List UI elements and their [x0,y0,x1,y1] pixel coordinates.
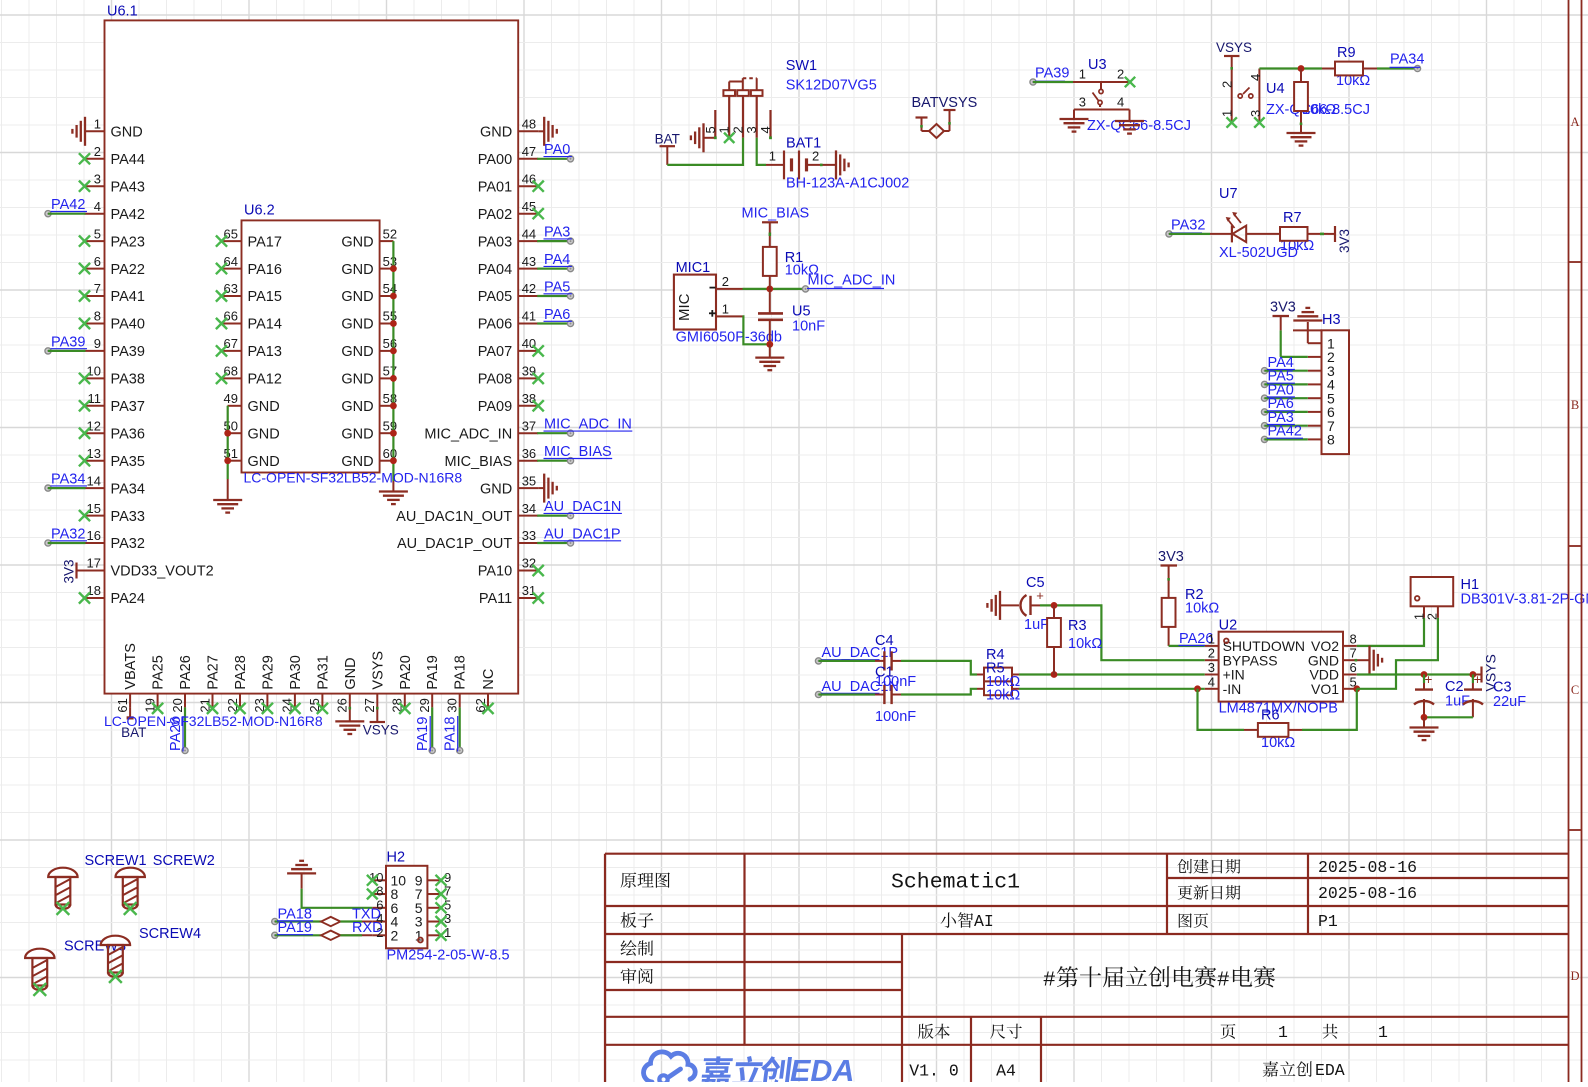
svg-text:PA33: PA33 [111,509,145,525]
svg-text:1: 1 [1220,110,1235,117]
svg-text:10kΩ: 10kΩ [785,263,819,279]
svg-text:15: 15 [87,501,101,516]
svg-text:31: 31 [522,583,536,598]
svg-text:4: 4 [1248,74,1263,81]
svg-text:#: # [1043,970,1056,993]
svg-text:MIC_BIAS: MIC_BIAS [742,205,810,221]
svg-text:2: 2 [812,149,819,164]
svg-text:LC-OPEN-SF32LB52-MOD-N16R8: LC-OPEN-SF32LB52-MOD-N16R8 [244,470,463,486]
svg-text:MIC_ADC_IN: MIC_ADC_IN [544,417,632,433]
svg-text:67: 67 [224,336,238,351]
svg-text:EDA: EDA [1315,1061,1345,1080]
svg-text:65: 65 [224,226,238,241]
svg-text:43: 43 [522,254,536,269]
svg-text:BH-123A-A1CJ002: BH-123A-A1CJ002 [786,176,909,192]
svg-text:VSYS: VSYS [370,651,386,690]
svg-text:PA41: PA41 [111,289,145,305]
svg-text:PA19: PA19 [425,655,441,689]
svg-text:PA27: PA27 [206,655,222,689]
svg-text:SW1: SW1 [786,58,817,74]
svg-text:48: 48 [522,117,536,132]
svg-text:6: 6 [94,254,101,269]
svg-text:5: 5 [94,226,101,241]
svg-text:GND: GND [341,289,373,305]
svg-text:41: 41 [522,309,536,324]
svg-text:MIC_BIAS: MIC_BIAS [445,454,513,470]
svg-text:AU_DAC1N: AU_DAC1N [544,499,621,515]
svg-text:2025-08-16: 2025-08-16 [1318,884,1417,903]
svg-text:PA17: PA17 [248,234,282,250]
svg-text:5: 5 [703,126,718,133]
svg-text:PA19: PA19 [415,717,431,751]
svg-text:38: 38 [522,391,536,406]
svg-text:35: 35 [522,473,536,488]
svg-text:1: 1 [1413,613,1427,620]
svg-text:8: 8 [1327,432,1335,448]
svg-text:PA32: PA32 [111,536,145,552]
svg-text:U3: U3 [1088,57,1107,73]
svg-text:PA28: PA28 [233,655,249,689]
svg-text:1: 1 [94,117,101,132]
svg-text:VBATS: VBATS [123,643,139,689]
svg-text:GND: GND [248,426,280,442]
svg-text:3V3: 3V3 [1337,229,1352,253]
svg-text:SCREW2: SCREW2 [153,853,215,869]
svg-text:3V3: 3V3 [1270,300,1296,316]
svg-text:PA26: PA26 [178,655,194,689]
svg-text:10kΩ: 10kΩ [1185,601,1219,617]
svg-text:4: 4 [1208,674,1215,689]
svg-text:12: 12 [87,418,101,433]
svg-text:PA3: PA3 [544,225,570,241]
svg-text:2025-08-16: 2025-08-16 [1318,858,1417,877]
svg-text:32: 32 [522,556,536,571]
svg-text:BAT: BAT [655,132,680,147]
svg-text:#: # [1217,970,1230,993]
svg-text:PA6: PA6 [544,307,570,323]
svg-text:2: 2 [1208,646,1215,661]
svg-text:1: 1 [1378,1023,1388,1042]
svg-text:PA02: PA02 [478,207,512,223]
svg-text:PA29: PA29 [260,655,276,689]
svg-text:AU_DAC1P: AU_DAC1P [544,526,621,542]
svg-text:PA19: PA19 [278,920,312,936]
svg-text:C4: C4 [875,633,894,649]
svg-text:18: 18 [87,583,101,598]
svg-text:U5: U5 [792,304,811,320]
svg-text:PA34: PA34 [51,472,85,488]
svg-text:VSYS: VSYS [1216,40,1252,55]
svg-text:PA43: PA43 [111,179,145,195]
svg-text:PA40: PA40 [111,317,145,333]
svg-text:9: 9 [94,336,101,351]
svg-text:6: 6 [1350,660,1357,675]
svg-text:1: 1 [722,301,729,316]
svg-text:EDA: EDA [790,1054,854,1082]
svg-text:36: 36 [522,446,536,461]
svg-text:GND: GND [480,125,512,141]
svg-text:PA5: PA5 [544,279,570,295]
svg-text:SK12D07VG5: SK12D07VG5 [786,78,877,94]
svg-text:GND: GND [341,344,373,360]
svg-text:39: 39 [522,364,536,379]
svg-text:100nF: 100nF [875,709,916,725]
svg-text:PA10: PA10 [478,564,512,580]
svg-text:22uF: 22uF [1493,694,1526,710]
svg-text:8: 8 [94,309,101,324]
svg-text:PA39: PA39 [111,344,145,360]
svg-text:PA03: PA03 [478,234,512,250]
svg-text:U4: U4 [1266,81,1285,97]
svg-text:7: 7 [1350,646,1357,661]
svg-text:66: 66 [224,309,238,324]
svg-text:45: 45 [522,199,536,214]
svg-text:+: + [1036,588,1044,603]
svg-text:+: + [1425,672,1433,687]
svg-text:SCREW1: SCREW1 [85,853,147,869]
svg-text:D: D [1570,969,1579,983]
svg-text:GND: GND [341,399,373,415]
svg-text:2: 2 [391,927,399,943]
svg-text:2: 2 [1426,613,1440,620]
svg-text:PA24: PA24 [111,591,145,607]
svg-text:H3: H3 [1322,312,1341,328]
svg-text:PA39: PA39 [1035,66,1069,82]
svg-text:47: 47 [522,144,536,159]
svg-text:PA37: PA37 [111,399,145,415]
svg-text:PA14: PA14 [248,317,282,333]
svg-text:VSYS: VSYS [363,722,399,737]
svg-text:27: 27 [362,698,377,712]
svg-text:33: 33 [522,528,536,543]
svg-text:P1: P1 [1318,912,1338,931]
svg-text:PA01: PA01 [478,179,512,195]
svg-text:MIC: MIC [676,293,693,321]
svg-text:GND: GND [341,426,373,442]
svg-text:U2: U2 [1219,618,1238,634]
svg-text:PA06: PA06 [478,317,512,333]
svg-text:29: 29 [417,698,432,712]
svg-text:PA20: PA20 [398,655,414,689]
svg-text:3: 3 [1079,95,1086,110]
svg-text:PA42: PA42 [111,207,145,223]
svg-text:3: 3 [744,126,759,133]
svg-text:10: 10 [87,364,101,379]
svg-text:13: 13 [87,446,101,461]
svg-text:PA00: PA00 [478,152,512,168]
svg-text:PA4: PA4 [544,252,570,268]
svg-text:VO1: VO1 [1311,681,1339,697]
svg-text:AU_DAC1P_OUT: AU_DAC1P_OUT [397,536,512,552]
svg-text:3: 3 [1248,110,1263,117]
svg-text:H2: H2 [387,850,406,866]
svg-text:46: 46 [522,171,536,186]
svg-text:3V3: 3V3 [62,559,77,583]
svg-text:A: A [1570,115,1579,129]
svg-text:2: 2 [1220,81,1235,88]
svg-text:NC: NC [481,669,497,690]
svg-text:PA32: PA32 [51,526,85,542]
svg-text:C: C [1571,683,1579,697]
svg-text:PA13: PA13 [248,344,282,360]
svg-text:H1: H1 [1461,577,1480,593]
svg-text:4: 4 [94,199,101,214]
svg-text:PA34: PA34 [111,481,145,497]
svg-text:U6.2: U6.2 [244,203,275,219]
svg-text:AU_DAC1N_OUT: AU_DAC1N_OUT [396,509,512,525]
svg-text:34: 34 [522,501,536,516]
svg-text:PA36: PA36 [111,426,145,442]
svg-text:3V3: 3V3 [1158,549,1184,565]
svg-text:Schematic1: Schematic1 [891,871,1020,895]
svg-text:11: 11 [88,391,102,406]
svg-text:GND: GND [341,454,373,470]
svg-text:1: 1 [769,149,776,164]
svg-text:GND: GND [248,399,280,415]
svg-text:1uF: 1uF [1024,617,1049,633]
svg-text:4: 4 [758,126,773,133]
svg-text:2: 2 [722,274,729,289]
svg-text:B: B [1571,398,1579,412]
svg-text:PA25: PA25 [151,655,167,689]
svg-text:14: 14 [87,473,101,488]
svg-text:37: 37 [522,418,536,433]
svg-text:PA16: PA16 [248,262,282,278]
svg-text:PA39: PA39 [51,334,85,350]
svg-text:GND: GND [341,234,373,250]
svg-text:PA18: PA18 [443,717,459,751]
svg-text:A4: A4 [996,1062,1016,1081]
svg-text:2: 2 [94,144,101,159]
svg-text:PA30: PA30 [288,655,304,689]
svg-text:4: 4 [1117,95,1124,110]
svg-text:PA32: PA32 [1171,217,1205,233]
svg-text:1: 1 [1208,631,1215,646]
svg-text:GND: GND [341,317,373,333]
svg-text:PA09: PA09 [478,399,512,415]
svg-text:61: 61 [115,698,130,712]
svg-text:SCREW4: SCREW4 [139,926,201,942]
svg-text:GND: GND [111,125,143,141]
svg-text:+: + [1474,672,1482,687]
svg-text:PA31: PA31 [315,655,331,689]
svg-text:AI: AI [974,912,994,931]
svg-text:1: 1 [1278,1023,1288,1042]
svg-text:100nF: 100nF [875,674,916,690]
svg-text:PA0: PA0 [544,142,570,158]
svg-text:44: 44 [522,226,536,241]
svg-text:26: 26 [335,698,350,712]
svg-text:U7: U7 [1219,186,1238,202]
svg-text:U6.1: U6.1 [107,4,138,20]
svg-text:V1. 0: V1. 0 [909,1062,959,1081]
svg-text:MIC_ADC_IN: MIC_ADC_IN [424,426,512,442]
svg-text:1: 1 [1079,67,1086,82]
svg-text:8: 8 [1350,631,1357,646]
svg-text:MIC_ADC_IN: MIC_ADC_IN [808,272,896,288]
svg-text:PA23: PA23 [111,234,145,250]
svg-text:R9: R9 [1337,45,1356,61]
svg-text:-IN: -IN [1223,681,1242,697]
svg-text:64: 64 [224,254,238,269]
svg-text:PA44: PA44 [111,152,145,168]
svg-text:PA12: PA12 [248,372,282,388]
svg-text:R6: R6 [1261,708,1280,724]
svg-text:RXD: RXD [352,920,383,936]
svg-text:PA08: PA08 [478,372,512,388]
svg-text:7: 7 [94,281,101,296]
svg-text:16: 16 [87,528,101,543]
svg-text:MIC_BIAS: MIC_BIAS [544,444,612,460]
svg-text:PA38: PA38 [111,372,145,388]
svg-text:PA42: PA42 [1268,424,1302,440]
svg-text:GND: GND [248,454,280,470]
svg-text:VDD33_VOUT2: VDD33_VOUT2 [111,564,214,580]
svg-text:42: 42 [522,281,536,296]
svg-text:68: 68 [224,364,238,379]
svg-text:R3: R3 [1068,618,1087,634]
svg-text:PM254-2-05-W-8.5: PM254-2-05-W-8.5 [387,948,510,964]
svg-text:63: 63 [224,281,238,296]
svg-text:GMI6050P-36db: GMI6050P-36db [676,330,782,346]
svg-text:49: 49 [224,391,238,406]
svg-text:3: 3 [1208,660,1215,675]
svg-text:20: 20 [170,698,185,712]
svg-text:PA15: PA15 [248,289,282,305]
svg-text:PA07: PA07 [478,344,512,360]
svg-text:PA18: PA18 [453,655,469,689]
svg-text:PA04: PA04 [478,262,512,278]
svg-text:PA42: PA42 [51,197,85,213]
svg-text:40: 40 [522,336,536,351]
svg-text:PA11: PA11 [479,591,512,607]
svg-text:LC-OPEN-SF32LB52-MOD-N16R8: LC-OPEN-SF32LB52-MOD-N16R8 [104,713,323,729]
svg-text:GND: GND [341,262,373,278]
svg-text:10kΩ: 10kΩ [986,688,1020,704]
svg-text:BATVSYS: BATVSYS [912,95,978,111]
svg-text:30: 30 [445,698,460,712]
svg-text:PA35: PA35 [111,454,145,470]
svg-text:PA05: PA05 [478,289,512,305]
svg-text:10nF: 10nF [792,319,825,335]
svg-text:PA22: PA22 [111,262,145,278]
svg-text:GND: GND [480,481,512,497]
svg-text:17: 17 [87,556,101,571]
svg-text:10kΩ: 10kΩ [1068,636,1102,652]
svg-text:2: 2 [1117,67,1124,82]
svg-text:R7: R7 [1283,210,1302,226]
svg-text:3: 3 [94,171,101,186]
svg-text:52: 52 [383,226,397,241]
svg-text:GND: GND [343,657,359,689]
svg-text:GND: GND [341,372,373,388]
svg-text:PA34: PA34 [1390,52,1424,68]
